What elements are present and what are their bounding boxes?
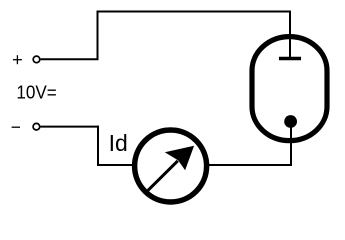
wire tube cathode lead (up to dot) xyxy=(290,121,292,166)
wire vertical down from - branch xyxy=(97,126,99,166)
tube envelope V1 xyxy=(252,37,327,141)
tube cathode dot xyxy=(284,115,297,128)
svg-text:10V=: 10V= xyxy=(16,83,56,103)
wire from ammeter right to corner under tube xyxy=(208,164,292,166)
ammeter M1 (circle) xyxy=(135,130,207,202)
wire top horizontal to tube xyxy=(97,11,291,13)
ammeter needle arrow head xyxy=(165,146,194,171)
wire from - terminal right to corner xyxy=(41,126,100,128)
wire horizontal into ammeter left xyxy=(97,164,133,166)
minus terminal node (open circle) xyxy=(33,123,40,130)
tube anode plate bar xyxy=(279,57,301,61)
plus terminal symbol "+" xyxy=(13,55,22,64)
wire tube anode lead (down into envelope) xyxy=(289,11,291,58)
wire vertical up from + branch xyxy=(97,12,99,60)
plus terminal node (open circle) xyxy=(33,56,40,63)
wire from + terminal right to corner xyxy=(41,58,99,60)
svg-text:Id: Id xyxy=(109,130,128,156)
ammeter needle arrow shaft xyxy=(148,161,178,191)
minus terminal symbol "-" xyxy=(12,126,20,128)
